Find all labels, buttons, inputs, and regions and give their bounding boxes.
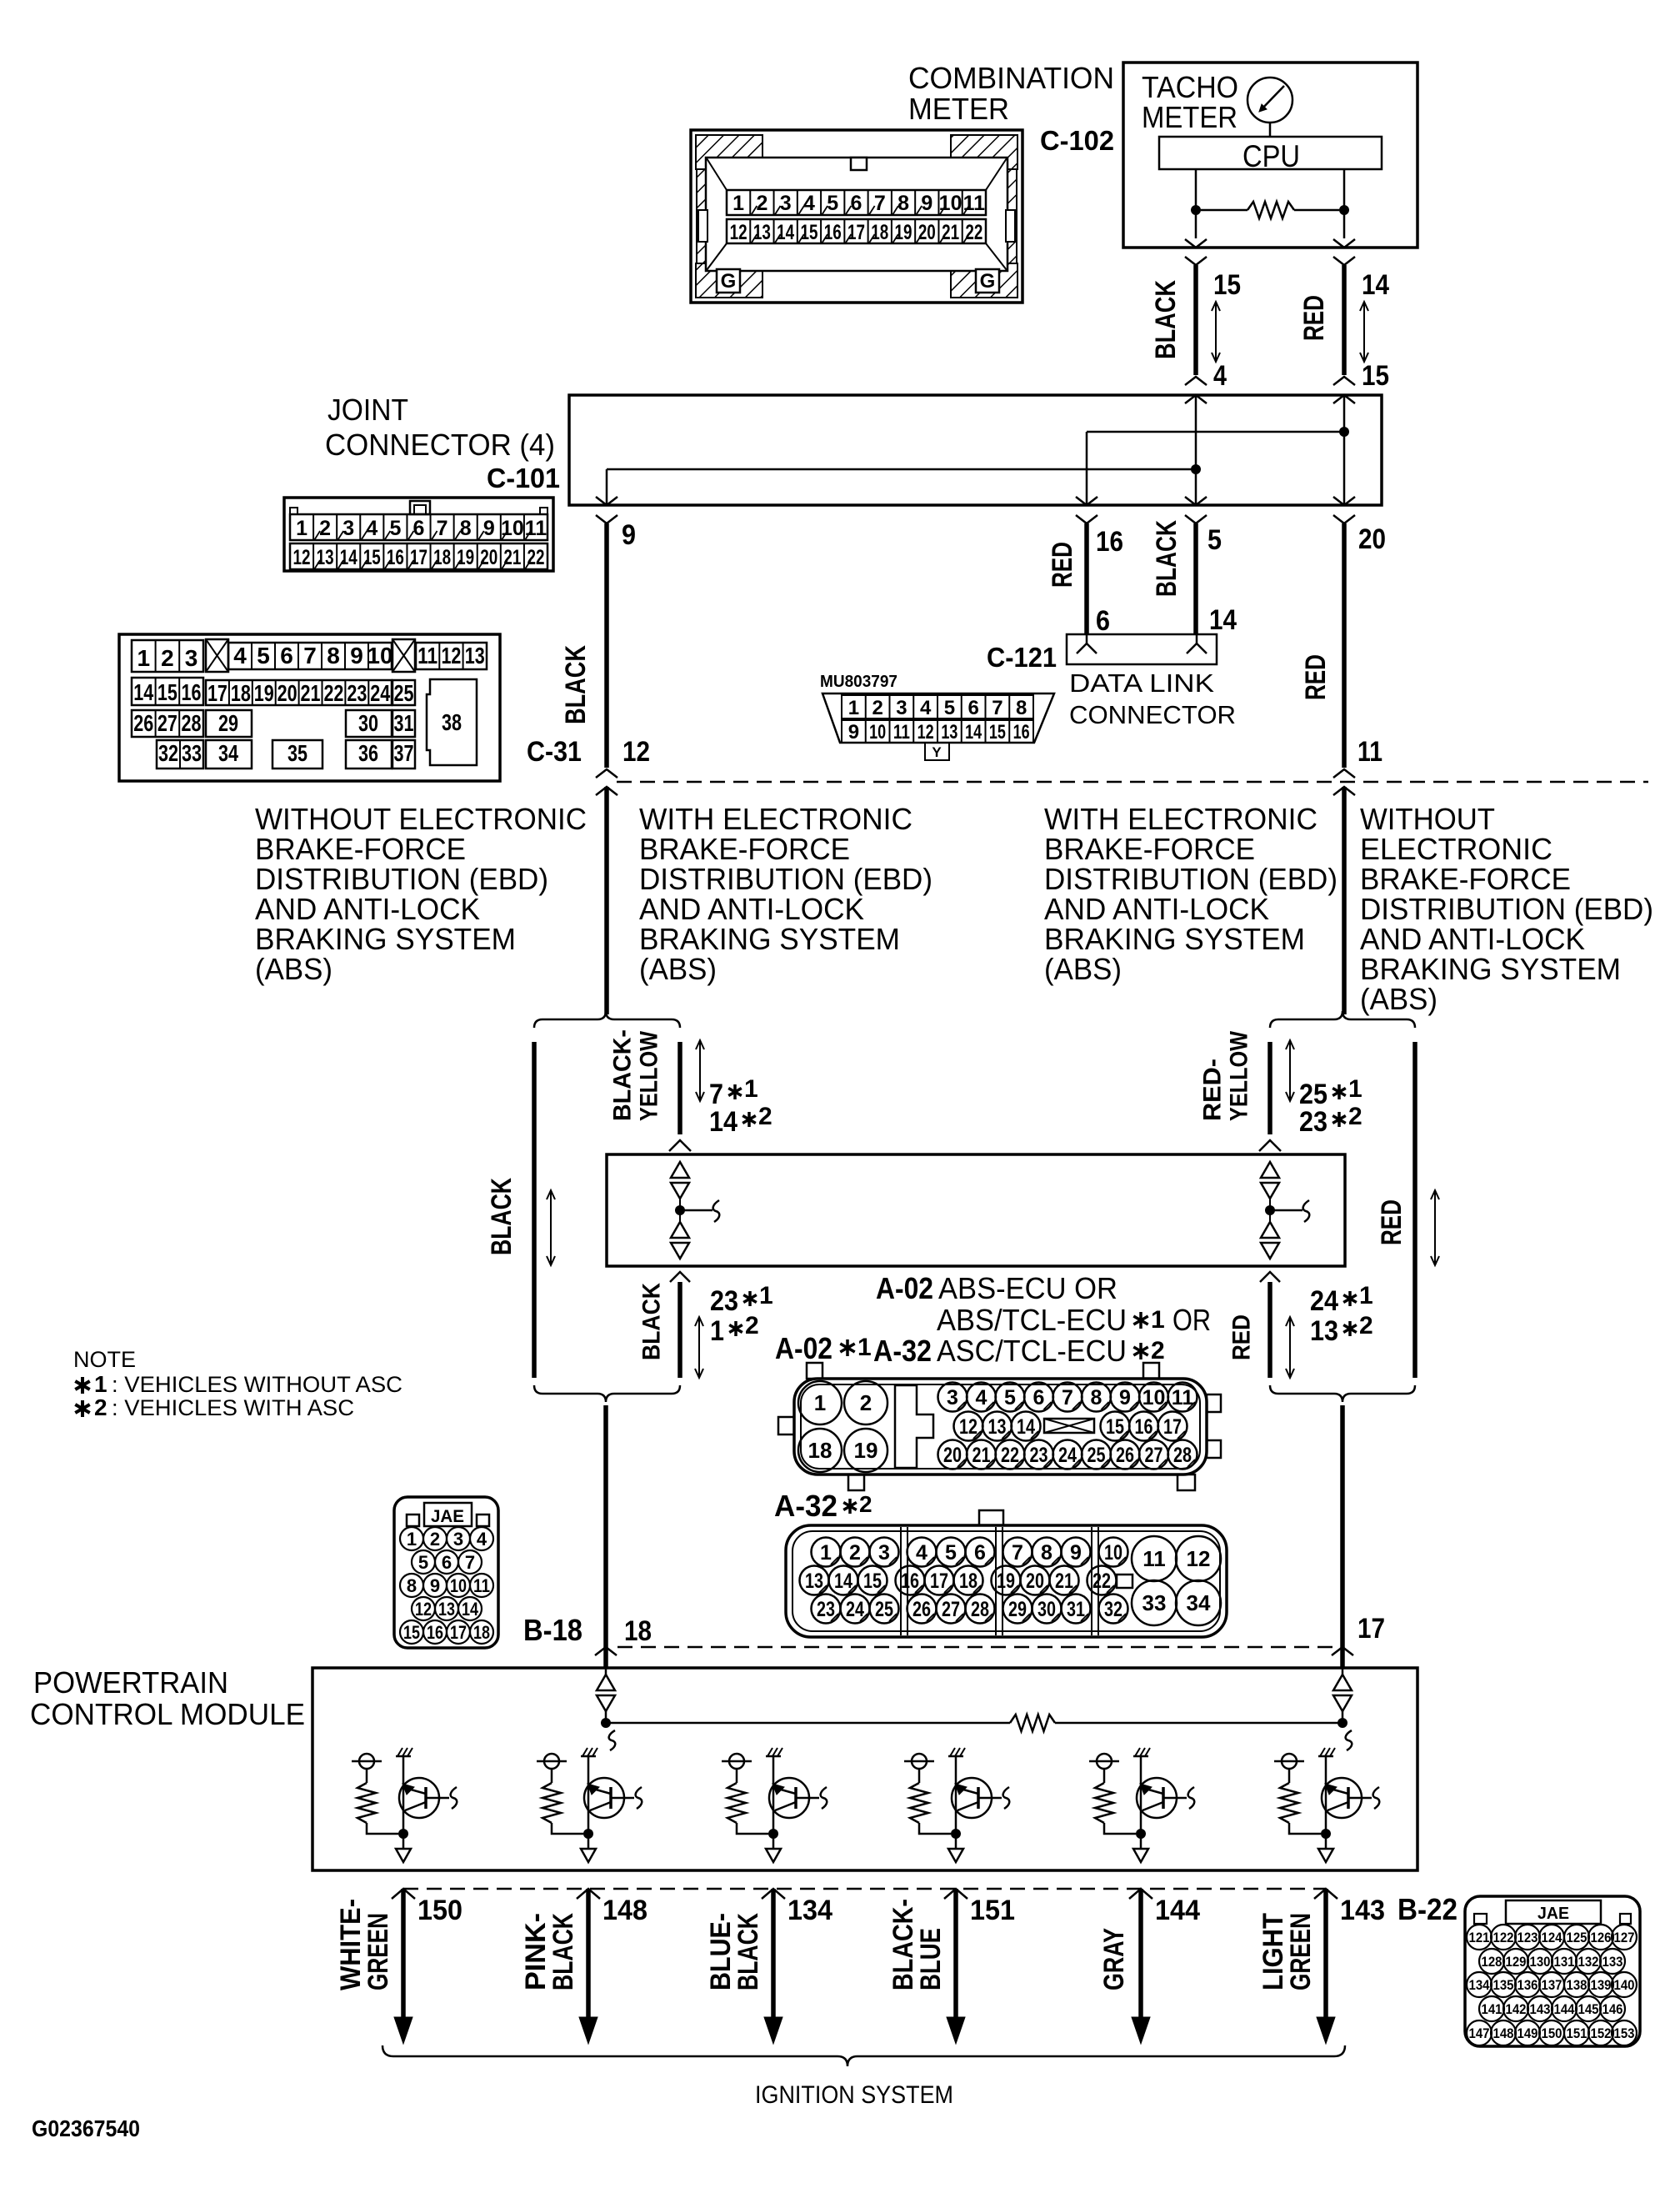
svg-text:24: 24 — [1058, 1444, 1077, 1467]
svg-text:2: 2 — [94, 1394, 107, 1420]
svg-text:CPU: CPU — [1242, 139, 1300, 173]
svg-text:137: 137 — [1542, 1977, 1562, 1993]
svg-text:15: 15 — [403, 1622, 420, 1643]
svg-text:129: 129 — [1506, 1954, 1527, 1970]
svg-text:4: 4 — [803, 192, 815, 215]
svg-text:BRAKE-FORCE: BRAKE-FORCE — [1360, 862, 1571, 896]
wire BLACK pin5 (joint to DLC pin14) — [1193, 523, 1198, 634]
svg-text:2: 2 — [860, 1390, 872, 1415]
wire joint internal branch to pin9 — [607, 468, 1196, 471]
wire BLACK (tacho pin15 to joint pin4) — [1193, 265, 1198, 375]
svg-text:11: 11 — [1357, 736, 1382, 768]
svg-text:144: 144 — [1554, 2001, 1575, 2017]
svg-text:148: 148 — [1493, 2025, 1514, 2041]
wire BLACK pin9 (joint to C-31 pin12) — [604, 523, 609, 768]
svg-text:7: 7 — [874, 192, 886, 215]
svg-text:BLUE: BLUE — [915, 1928, 947, 1990]
svg-text:14: 14 — [462, 1599, 479, 1620]
svg-text:3: 3 — [453, 1529, 463, 1550]
svg-text:35: 35 — [287, 740, 307, 766]
svg-text:BLACK: BLACK — [1150, 280, 1182, 359]
svg-text:1: 1 — [857, 1334, 872, 1361]
svg-text:BLACK: BLACK — [1151, 520, 1182, 597]
ABS-ECU box — [607, 1154, 1345, 1266]
svg-text:RED: RED — [1376, 1199, 1407, 1245]
svg-text:12: 12 — [293, 546, 311, 569]
break chevrons C-31 pin11 — [1333, 769, 1355, 778]
svg-text:16: 16 — [427, 1622, 443, 1643]
svg-text:17: 17 — [207, 680, 227, 706]
svg-text:9: 9 — [430, 1575, 440, 1596]
svg-text:1: 1 — [744, 1075, 758, 1103]
svg-text:146: 146 — [1602, 2001, 1623, 2017]
svg-text:13: 13 — [1310, 1315, 1338, 1347]
tachometer box — [1123, 63, 1417, 248]
svg-text:148: 148 — [602, 1895, 647, 1926]
svg-text:DISTRIBUTION (EBD): DISTRIBUTION (EBD) — [639, 862, 932, 896]
svg-text:GRAY: GRAY — [1098, 1928, 1130, 1990]
svg-text:14: 14 — [1362, 269, 1389, 301]
svg-text:6: 6 — [413, 517, 425, 540]
wire BLACK long branch — [532, 1042, 537, 1378]
svg-text:JOINT: JOINT — [327, 393, 408, 427]
svg-text:16: 16 — [824, 221, 842, 244]
connector A-32 label — [774, 1489, 872, 1523]
wire RED long branch — [1412, 1042, 1417, 1378]
svg-text:9: 9 — [350, 643, 363, 668]
svg-text:138: 138 — [1567, 1977, 1587, 1993]
svg-text:13: 13 — [465, 643, 485, 668]
text block: with EBD/ABS (center-right) — [1044, 802, 1337, 986]
ECU internal symbols left — [671, 1162, 719, 1259]
svg-text:28: 28 — [971, 1598, 989, 1621]
svg-text:4: 4 — [366, 517, 377, 540]
svg-text:149: 149 — [1517, 2025, 1538, 2041]
svg-text:16: 16 — [182, 679, 202, 705]
svg-text:8: 8 — [407, 1575, 417, 1596]
svg-text:4: 4 — [477, 1529, 487, 1550]
ECU internal symbols right — [1261, 1162, 1309, 1259]
svg-text:22: 22 — [1001, 1444, 1019, 1467]
svg-text:23: 23 — [347, 680, 367, 706]
svg-text:14: 14 — [777, 221, 794, 244]
svg-text:C-121: C-121 — [987, 642, 1057, 673]
wire to B-22 pin17 — [1340, 1405, 1345, 1647]
svg-text:15: 15 — [363, 546, 381, 569]
svg-text:18: 18 — [433, 546, 451, 569]
svg-text:1: 1 — [759, 1282, 773, 1309]
svg-text:AND ANTI-LOCK: AND ANTI-LOCK — [255, 892, 480, 926]
svg-text:23: 23 — [710, 1285, 738, 1317]
svg-text:G02367540: G02367540 — [32, 2115, 140, 2141]
brace join RED wires — [1270, 1385, 1415, 1402]
svg-text:9: 9 — [622, 519, 636, 551]
svg-text:121: 121 — [1469, 1930, 1490, 1945]
svg-text:28: 28 — [1173, 1444, 1192, 1467]
svg-text:2: 2 — [745, 1312, 759, 1339]
svg-text:142: 142 — [1506, 2001, 1527, 2017]
svg-text:A-02: A-02 — [876, 1271, 933, 1305]
svg-text:15: 15 — [1106, 1415, 1124, 1439]
svg-text:7: 7 — [1062, 1386, 1073, 1409]
svg-text:4: 4 — [1213, 360, 1227, 392]
svg-text:BRAKING SYSTEM: BRAKING SYSTEM — [639, 922, 900, 956]
svg-text:15: 15 — [989, 721, 1006, 744]
svg-text:BRAKE-FORCE: BRAKE-FORCE — [1044, 832, 1255, 866]
text block: without EBD/ABS (right) — [1360, 802, 1653, 1016]
svg-text:POWERTRAIN: POWERTRAIN — [33, 1665, 228, 1700]
svg-text:134: 134 — [787, 1895, 832, 1926]
svg-text:WITH ELECTRONIC: WITH ELECTRONIC — [639, 802, 912, 836]
svg-text:127: 127 — [1614, 1930, 1635, 1945]
svg-text:GREEN: GREEN — [1285, 1913, 1317, 1990]
wire BLACK below C-31 — [604, 787, 609, 1014]
svg-text:1: 1 — [820, 1541, 832, 1565]
svg-text:126: 126 — [1591, 1930, 1612, 1945]
resistor R2 (PCM internal) — [1010, 1715, 1055, 1731]
svg-text:1: 1 — [710, 1315, 724, 1347]
svg-text:32: 32 — [1104, 1598, 1122, 1621]
svg-text:26: 26 — [133, 710, 153, 736]
wire BLACK--BLUE pin 151 — [944, 1889, 967, 2044]
svg-text:125: 125 — [1567, 1930, 1587, 1945]
svg-text:20: 20 — [918, 221, 936, 244]
svg-text:2: 2 — [758, 1103, 772, 1130]
svg-text:11: 11 — [1142, 1546, 1166, 1571]
svg-text:11: 11 — [963, 192, 986, 215]
wire BLUE--BLACK pin 134 — [762, 1889, 785, 2044]
connector C-121 box — [1067, 634, 1217, 664]
svg-text:COMBINATION: COMBINATION — [908, 61, 1114, 95]
wire RED pin16 (joint to DLC pin6) — [1084, 523, 1089, 634]
double arrow — [550, 1190, 552, 1265]
svg-text:12: 12 — [622, 736, 650, 768]
svg-text:CONNECTOR: CONNECTOR — [1069, 700, 1236, 729]
svg-text:2: 2 — [872, 697, 882, 719]
svg-text:BLACK: BLACK — [560, 645, 592, 724]
svg-text:BLACK: BLACK — [547, 1913, 579, 1990]
svg-text:36: 36 — [358, 740, 378, 766]
svg-text:143: 143 — [1340, 1895, 1385, 1926]
svg-text:BRAKING SYSTEM: BRAKING SYSTEM — [1360, 952, 1621, 986]
svg-text:RED: RED — [1228, 1314, 1256, 1360]
svg-text:11: 11 — [473, 1575, 490, 1596]
svg-text:4: 4 — [916, 1541, 927, 1565]
svg-text:4: 4 — [976, 1386, 987, 1409]
svg-text:C-31: C-31 — [527, 736, 582, 768]
svg-text:A-32: A-32 — [774, 1489, 837, 1523]
double arrow — [698, 1317, 700, 1378]
svg-text:13: 13 — [753, 221, 771, 244]
svg-text:12: 12 — [441, 643, 461, 668]
svg-text:11: 11 — [525, 517, 547, 540]
svg-text:21: 21 — [972, 1444, 991, 1467]
note text — [73, 1347, 136, 1372]
wire CPU right leg — [1343, 169, 1346, 238]
wire PINK--BLACK pin 148 — [577, 1889, 600, 2044]
svg-text:135: 135 — [1493, 1977, 1514, 1993]
svg-text:OR: OR — [1172, 1303, 1211, 1337]
svg-text:32: 32 — [158, 740, 178, 766]
junction dot pin4 branch — [1191, 464, 1201, 474]
text block: with EBD/ABS (center-left) — [639, 802, 932, 986]
svg-text:21: 21 — [301, 680, 321, 706]
svg-text:3: 3 — [878, 1541, 890, 1565]
note *1 — [75, 1371, 402, 1397]
svg-text:37: 37 — [394, 740, 414, 766]
svg-text:ASC/TCL-ECU: ASC/TCL-ECU — [937, 1334, 1127, 1368]
svg-text:1: 1 — [296, 517, 307, 540]
svg-text:124: 124 — [1542, 1930, 1562, 1945]
svg-text:BLACK-: BLACK- — [609, 1029, 637, 1121]
svg-text:1: 1 — [1151, 1306, 1165, 1334]
svg-text:YELLOW: YELLOW — [1226, 1030, 1253, 1121]
wire BLACK-YELLOW branch — [677, 1042, 682, 1134]
svg-text:6: 6 — [967, 697, 978, 719]
svg-text:18: 18 — [808, 1438, 832, 1463]
dashed line B-22 boundary — [403, 1888, 1326, 1890]
svg-text:15: 15 — [800, 221, 817, 244]
wire color label WHITE- GREEN — [335, 1899, 394, 1990]
svg-text:C-102: C-102 — [1040, 125, 1114, 156]
svg-text:1: 1 — [137, 645, 151, 671]
svg-text:7: 7 — [1012, 1541, 1023, 1565]
svg-text:7: 7 — [303, 643, 317, 668]
svg-text:20: 20 — [943, 1444, 962, 1467]
junction dot left — [1191, 205, 1201, 215]
svg-text:20: 20 — [1026, 1570, 1044, 1593]
svg-text:BLACK: BLACK — [732, 1913, 764, 1990]
svg-text:MU803797: MU803797 — [820, 673, 897, 691]
svg-text:(ABS): (ABS) — [1360, 982, 1437, 1016]
wire color label PINK- BLACK — [520, 1913, 579, 1990]
svg-text:10: 10 — [939, 192, 962, 215]
svg-text:7: 7 — [465, 1552, 475, 1573]
wire RED-YELLOW branch — [1267, 1042, 1272, 1134]
svg-text:DISTRIBUTION (EBD): DISTRIBUTION (EBD) — [1044, 862, 1337, 896]
double arrow — [1215, 302, 1217, 362]
svg-text:21: 21 — [942, 221, 959, 244]
svg-text:B-22: B-22 — [1397, 1892, 1457, 1926]
svg-text:12: 12 — [917, 721, 934, 744]
svg-text:150: 150 — [417, 1895, 462, 1926]
svg-text:2: 2 — [319, 517, 331, 540]
svg-text:139: 139 — [1591, 1977, 1612, 1993]
svg-text:4: 4 — [920, 697, 932, 719]
svg-text:27: 27 — [157, 710, 177, 736]
svg-text:RED: RED — [1047, 542, 1078, 588]
svg-text:1: 1 — [848, 697, 859, 719]
PCM entry symbols right (pin17) — [1333, 1668, 1352, 1750]
svg-text:38: 38 — [442, 709, 462, 735]
svg-text:24: 24 — [1310, 1285, 1338, 1317]
wire color label BLUE- BLACK — [705, 1913, 764, 1990]
svg-text:RED: RED — [1298, 295, 1330, 341]
svg-text:30: 30 — [1037, 1598, 1056, 1621]
svg-text:A-32: A-32 — [873, 1334, 932, 1368]
svg-text:14: 14 — [340, 546, 357, 569]
svg-text:CONTROL MODULE: CONTROL MODULE — [30, 1697, 305, 1731]
svg-text:1: 1 — [94, 1371, 107, 1397]
svg-text:2: 2 — [1151, 1337, 1165, 1364]
svg-text:DISTRIBUTION (EBD): DISTRIBUTION (EBD) — [1360, 892, 1653, 926]
svg-text:2: 2 — [1359, 1312, 1373, 1339]
svg-text:(ABS): (ABS) — [639, 952, 717, 986]
fork C-121 pin14 — [1187, 643, 1207, 653]
svg-text:19: 19 — [254, 680, 274, 706]
svg-text:METER: METER — [1142, 100, 1237, 134]
svg-text:METER: METER — [908, 92, 1009, 126]
svg-text:22: 22 — [965, 221, 982, 244]
svg-text:3: 3 — [947, 1386, 958, 1409]
tachometer gauge icon — [1247, 78, 1292, 137]
svg-text:17: 17 — [1163, 1415, 1182, 1439]
svg-text:12: 12 — [959, 1415, 977, 1439]
svg-text:6: 6 — [974, 1541, 986, 1565]
svg-text:19: 19 — [895, 221, 912, 244]
fork into ECU right — [1259, 1140, 1281, 1151]
svg-text:: VEHICLES WITH ASC: : VEHICLES WITH ASC — [112, 1395, 354, 1420]
connector B-22 (JAE 53-pin drawing) — [1465, 1896, 1640, 2046]
svg-text:3: 3 — [780, 192, 792, 215]
svg-text:16: 16 — [387, 546, 404, 569]
svg-text:1: 1 — [1359, 1282, 1373, 1309]
svg-text:151: 151 — [1567, 2025, 1587, 2041]
dashed line C-31 connector boundary — [617, 781, 1648, 784]
wire joint internal right vertical (pin15-pin20) — [1343, 395, 1346, 505]
svg-text:2: 2 — [161, 645, 174, 671]
svg-text:14: 14 — [834, 1570, 852, 1593]
svg-text:153: 153 — [1614, 2025, 1635, 2041]
transistor circuit Q6 — [1274, 1748, 1379, 1862]
svg-text:134: 134 — [1469, 1977, 1490, 1993]
svg-text:A-02: A-02 — [775, 1331, 832, 1365]
svg-text:C-101: C-101 — [487, 463, 560, 493]
svg-text:18: 18 — [231, 680, 251, 706]
brace split BLACK wire — [534, 1011, 680, 1028]
svg-text:18: 18 — [624, 1615, 652, 1647]
svg-text:9: 9 — [848, 721, 859, 744]
svg-text:ELECTRONIC: ELECTRONIC — [1360, 832, 1552, 866]
svg-text:130: 130 — [1530, 1954, 1551, 1970]
svg-text:3: 3 — [896, 697, 907, 719]
svg-text:140: 140 — [1614, 1977, 1635, 1993]
fork C-121 pin6 — [1077, 643, 1097, 653]
connector C-31 (38-pin drawing) — [119, 634, 500, 781]
transistor circuit Q2 — [537, 1748, 642, 1862]
svg-text:24: 24 — [846, 1598, 864, 1621]
svg-text:9: 9 — [921, 192, 932, 215]
svg-text:10: 10 — [367, 643, 392, 668]
connector A-32 (34-pin drawing) — [786, 1510, 1227, 1637]
joint connector C-101 box — [569, 395, 1382, 505]
svg-text:15: 15 — [1213, 269, 1241, 301]
svg-text:145: 145 — [1578, 2001, 1599, 2017]
svg-text:13: 13 — [438, 1599, 455, 1620]
svg-text:8: 8 — [1041, 1541, 1052, 1565]
svg-text:147: 147 — [1469, 2025, 1490, 2041]
svg-text:136: 136 — [1517, 1977, 1538, 1993]
svg-text:29: 29 — [1008, 1598, 1027, 1621]
svg-text:8: 8 — [1091, 1386, 1102, 1409]
svg-text:6: 6 — [280, 643, 293, 668]
wire color label GRAY — [1098, 1928, 1130, 1990]
svg-text:NOTE: NOTE — [73, 1347, 136, 1372]
svg-text:4: 4 — [233, 643, 247, 668]
svg-text:3: 3 — [342, 517, 354, 540]
svg-text:1: 1 — [732, 192, 744, 215]
svg-text:15: 15 — [157, 679, 177, 705]
svg-text:8: 8 — [460, 517, 472, 540]
double arrow — [1289, 1040, 1291, 1101]
svg-text:RED-: RED- — [1199, 1059, 1227, 1121]
transistor circuit Q4 — [904, 1748, 1009, 1862]
wire to B-18 pin18 — [603, 1405, 608, 1647]
transistor circuit Q5 — [1089, 1748, 1194, 1862]
svg-text:AND ANTI-LOCK: AND ANTI-LOCK — [1360, 922, 1585, 956]
wire RED below C-31 — [1342, 787, 1347, 1014]
connector B-18 (JAE 18-pin drawing) — [394, 1497, 498, 1648]
wire WHITE--GREEN pin 150 — [392, 1889, 415, 2044]
svg-text:7: 7 — [992, 697, 1002, 719]
svg-text:BLACK: BLACK — [486, 1178, 517, 1255]
svg-text:131: 131 — [1554, 1954, 1575, 1970]
wire joint internal branch to pin16 — [1087, 431, 1344, 433]
svg-text:132: 132 — [1578, 1954, 1599, 1970]
svg-text:25: 25 — [1087, 1444, 1106, 1467]
wire joint internal left vertical (pin4-pin5) — [1195, 395, 1197, 505]
svg-text:2: 2 — [430, 1529, 440, 1550]
svg-text:16: 16 — [1096, 526, 1123, 558]
brace split RED wire — [1270, 1011, 1415, 1028]
svg-text:5: 5 — [418, 1552, 428, 1573]
svg-text:DATA LINK: DATA LINK — [1069, 668, 1214, 698]
svg-text:17: 17 — [847, 221, 865, 244]
svg-text:25: 25 — [394, 680, 414, 706]
transistor circuit Q3 — [722, 1748, 827, 1862]
svg-text:151: 151 — [970, 1895, 1015, 1926]
svg-text:(ABS): (ABS) — [1044, 952, 1122, 986]
svg-text:144: 144 — [1155, 1895, 1200, 1926]
break chevron pin17 — [1332, 1647, 1353, 1655]
svg-text:ABS-ECU OR: ABS-ECU OR — [938, 1271, 1117, 1305]
svg-text:133: 133 — [1602, 1954, 1623, 1970]
svg-text:1: 1 — [814, 1390, 826, 1415]
svg-text:22: 22 — [527, 546, 544, 569]
svg-text:17: 17 — [450, 1622, 467, 1643]
CPU block U1 — [1159, 137, 1382, 169]
svg-text:B-18: B-18 — [523, 1613, 582, 1647]
svg-text:24: 24 — [370, 680, 390, 706]
svg-text:(ABS): (ABS) — [255, 952, 332, 986]
svg-text:2: 2 — [1348, 1103, 1362, 1130]
chevrons joint connector exits — [596, 497, 617, 505]
double arrow — [1289, 1317, 1291, 1378]
connector pin chevrons at tachometer exit — [1185, 239, 1207, 248]
svg-text:19: 19 — [997, 1570, 1015, 1593]
svg-text:1: 1 — [407, 1529, 417, 1550]
svg-text:G: G — [980, 270, 996, 293]
svg-text:JAE: JAE — [1537, 1905, 1569, 1923]
wire color label LIGHT GREEN — [1257, 1913, 1317, 1990]
svg-text:13: 13 — [805, 1570, 823, 1593]
svg-text:27: 27 — [942, 1598, 960, 1621]
svg-text:10: 10 — [450, 1575, 467, 1596]
svg-text:5: 5 — [389, 517, 401, 540]
ECU name label — [775, 1271, 1211, 1368]
svg-text:19: 19 — [854, 1438, 878, 1463]
svg-text:5: 5 — [827, 192, 838, 215]
